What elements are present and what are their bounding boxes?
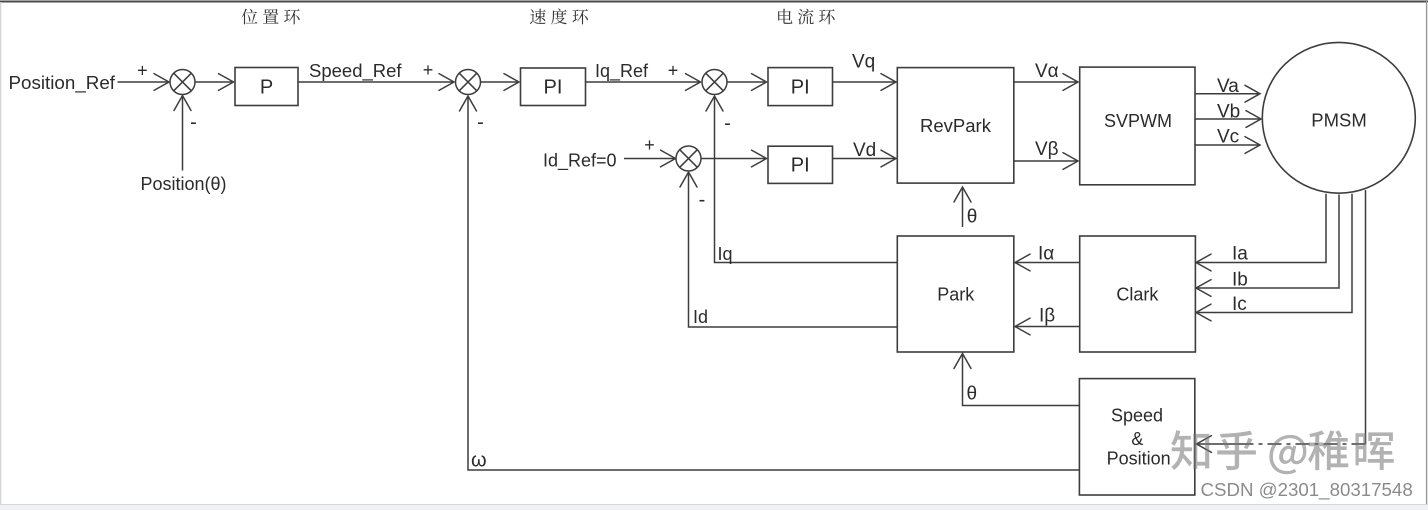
wire Iq feedback Park to S3 <box>715 97 898 263</box>
right border <box>1426 0 1428 510</box>
arrowhead Vd into RevPark <box>881 150 896 167</box>
left border <box>0 2 2 510</box>
wire SVPWM to PMSM (Vc) <box>1195 144 1260 146</box>
arrowhead Id up into S4 <box>680 172 697 187</box>
label 电流环 (current loop) <box>778 9 834 25</box>
svg-text:PI: PI <box>791 77 810 99</box>
label 速度环 (speed loop) <box>530 9 588 25</box>
svg-text:Speed_Ref: Speed_Ref <box>309 60 402 82</box>
wire P to S2 <box>298 81 454 83</box>
svg-text:Vd: Vd <box>853 140 876 161</box>
wire Iα Clark to Park <box>1016 262 1080 264</box>
arrowhead into S1 <box>154 74 169 91</box>
arrowhead Ib into Clark <box>1196 280 1211 297</box>
svg-text:-: - <box>190 112 197 134</box>
block Clark <box>1080 236 1196 352</box>
arrowhead Va into PMSM <box>1245 85 1260 102</box>
wire S3 to PI2 <box>727 81 766 83</box>
svg-text:Clark: Clark <box>1116 285 1159 305</box>
arrowhead into P <box>219 74 234 91</box>
wire RevPark to SVPWM (Vα) <box>1014 81 1078 83</box>
svg-text:-: - <box>699 189 706 211</box>
motor PMSM <box>1262 42 1415 193</box>
block PI2 <box>768 68 833 106</box>
svg-text:Ic: Ic <box>1232 294 1247 315</box>
svg-text:θ: θ <box>967 384 978 405</box>
wire θ Speed&Position to Park <box>963 354 1080 406</box>
wire PI1 to S3 <box>586 81 701 83</box>
arrowhead into PI2 <box>752 74 767 91</box>
summing junction S3 <box>702 70 727 95</box>
wire S2 to PI1 <box>481 81 519 83</box>
block P <box>235 68 298 106</box>
svg-text:ω: ω <box>471 450 487 472</box>
svg-text:Iq_Ref: Iq_Ref <box>595 61 649 82</box>
svg-text:Iq: Iq <box>718 244 733 264</box>
arrowhead Iq up into S3 <box>706 96 723 111</box>
svg-text:Ib: Ib <box>1232 270 1248 291</box>
wire ω Speed&Position to S2 <box>468 97 1079 471</box>
svg-text:Vβ: Vβ <box>1035 139 1059 160</box>
arrowhead Iα into Park <box>1015 254 1030 271</box>
top border <box>0 1 1428 3</box>
svg-text:PI: PI <box>544 77 563 99</box>
wire Ic from PMSM to Clark <box>1197 194 1353 313</box>
bottom strip <box>0 505 1428 510</box>
wire Ia from PMSM to Clark <box>1197 194 1327 263</box>
svg-text:Vα: Vα <box>1035 61 1059 82</box>
wire Id_Ref to S4 <box>624 158 675 160</box>
arrowhead into S3 <box>686 74 701 91</box>
arrowhead up into S1 <box>174 96 191 111</box>
arrowhead ω up into S2 <box>460 96 477 111</box>
arrowhead into PI3 <box>752 150 767 167</box>
wire RevPark to SVPWM (Vβ) <box>1014 160 1078 162</box>
summing junction S4 <box>676 146 701 171</box>
wire PI3 to RevPark (Vd) <box>833 158 896 160</box>
wire PMSM sensor drop <box>1365 190 1367 444</box>
label 位置环 (position loop) <box>241 9 299 25</box>
arrowhead Vq into RevPark <box>881 74 896 91</box>
arrowhead sensor into Speed&Position <box>1197 436 1212 453</box>
summing junction S1 <box>170 70 195 95</box>
arrowhead into S2 <box>439 74 454 91</box>
svg-text:Va: Va <box>1217 76 1239 97</box>
svg-text:Id_Ref=0: Id_Ref=0 <box>543 151 617 172</box>
svg-text:PMSM: PMSM <box>1311 110 1367 131</box>
block Speed & Position <box>1079 379 1194 495</box>
arrowhead Vα into SVPWM <box>1063 74 1078 91</box>
svg-text:Position(θ): Position(θ) <box>141 174 227 194</box>
svg-text:Speed: Speed <box>1111 406 1163 426</box>
svg-text:Position: Position <box>1107 449 1171 469</box>
summing junction S2 <box>456 70 481 95</box>
svg-text:Position_Ref: Position_Ref <box>9 72 116 94</box>
svg-text:Iα: Iα <box>1038 244 1054 265</box>
arrowhead Vb into PMSM <box>1246 111 1261 128</box>
block Park <box>897 236 1014 352</box>
arrowhead Iβ into Park <box>1015 318 1030 335</box>
wire S4 to PI3 <box>701 158 766 160</box>
svg-text:P: P <box>260 77 273 99</box>
wire Position_Ref to S1 <box>118 81 170 83</box>
wire S1 to P <box>195 81 233 83</box>
wire PI2 to RevPark (Vq) <box>833 81 896 83</box>
wire θ stub into RevPark <box>962 188 964 228</box>
svg-text:+: + <box>644 135 655 155</box>
arrowhead θ up into Park <box>954 354 971 369</box>
svg-text:-: - <box>477 112 484 134</box>
svg-text:SVPWM: SVPWM <box>1104 111 1172 131</box>
svg-text:CSDN @2301_80317548: CSDN @2301_80317548 <box>1201 479 1413 501</box>
arrowhead into PI1 <box>504 74 519 91</box>
svg-text:θ: θ <box>967 206 978 227</box>
svg-text:Iβ: Iβ <box>1039 306 1055 327</box>
svg-text:Vq: Vq <box>852 52 875 73</box>
wire dash-dot sensor into Speed&Position <box>1197 443 1240 445</box>
arrowhead Ia into Clark <box>1196 254 1211 271</box>
svg-text:Id: Id <box>693 307 708 327</box>
svg-text:Vc: Vc <box>1217 127 1239 148</box>
svg-text:RevPark: RevPark <box>920 115 992 136</box>
svg-text:PI: PI <box>791 155 810 177</box>
block RevPark <box>897 68 1014 184</box>
arrowhead Ic into Clark <box>1196 304 1211 321</box>
wire SVPWM to PMSM (Vb) <box>1195 118 1261 120</box>
watermark zhihu @zhihui <box>1171 430 1394 474</box>
svg-text:+: + <box>668 61 679 81</box>
wire Iβ Clark to Park <box>1016 326 1080 328</box>
svg-text:+: + <box>137 61 148 81</box>
svg-text:&: & <box>1131 429 1143 449</box>
block PI1 <box>521 68 586 106</box>
wire Position(θ) feedback up into S1 <box>182 96 184 171</box>
svg-text:-: - <box>724 113 731 135</box>
wire Ib from PMSM to Clark <box>1197 195 1340 289</box>
wire SVPWM to PMSM (Va) <box>1195 93 1260 95</box>
svg-text:+: + <box>423 60 434 80</box>
svg-text:Park: Park <box>937 285 975 305</box>
arrowhead Vc into PMSM <box>1245 137 1260 154</box>
block SVPWM <box>1080 67 1195 185</box>
block PI3 <box>768 146 833 183</box>
arrowhead into S4 <box>661 150 676 167</box>
arrowhead Vβ into SVPWM <box>1063 153 1078 170</box>
svg-text:Ia: Ia <box>1232 244 1248 265</box>
wire Id feedback Park to S4 <box>689 173 898 328</box>
svg-text:Vb: Vb <box>1217 102 1240 123</box>
arrowhead θ into RevPark <box>954 187 971 202</box>
